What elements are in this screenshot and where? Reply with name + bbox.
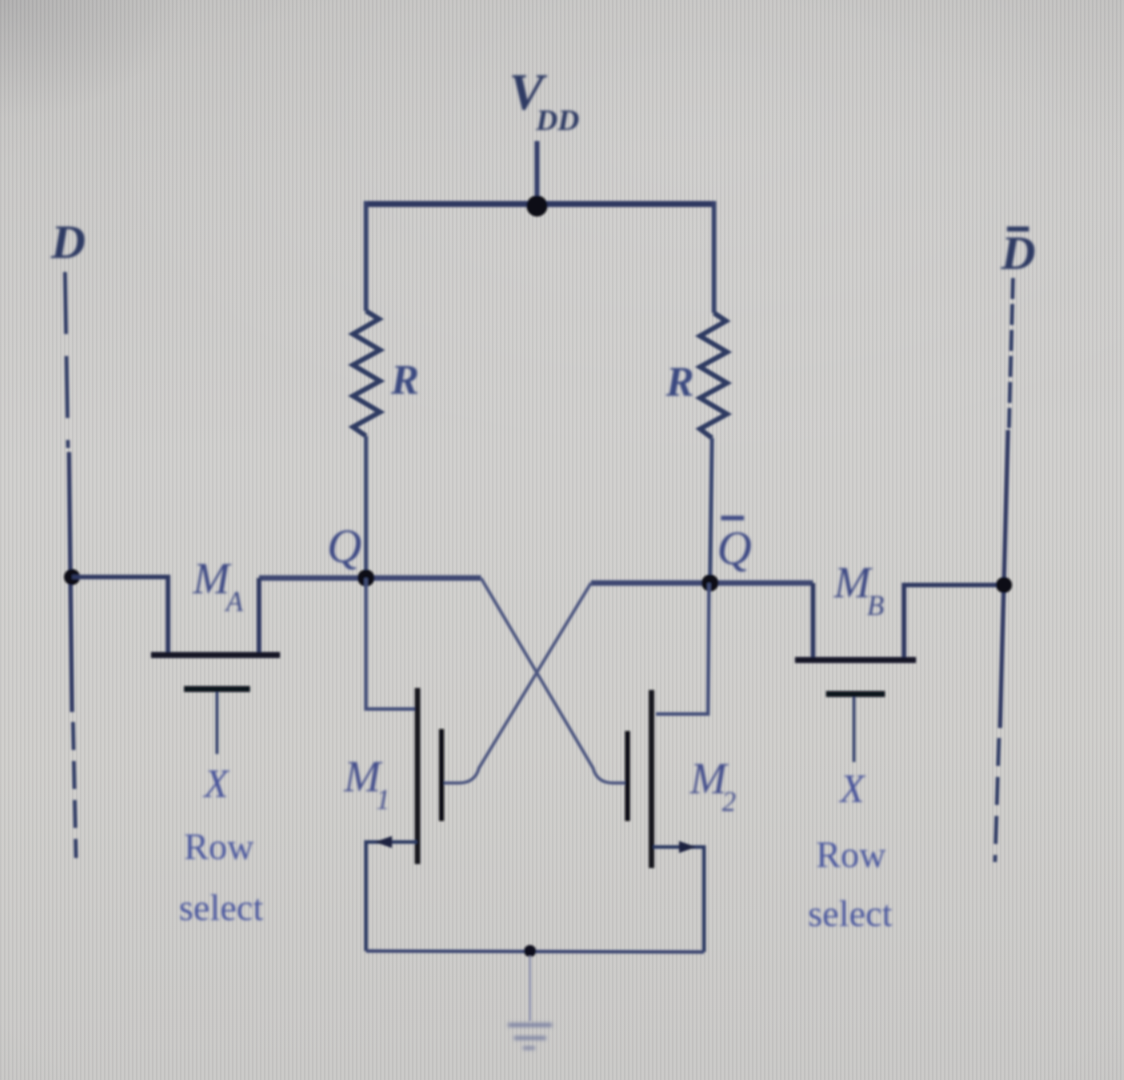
wire: MB source lead to D-bar node bbox=[904, 585, 1004, 657]
wire: right rail corner down to resistor R2 bbox=[712, 201, 717, 313]
node: Qbar junction dot bbox=[702, 575, 719, 592]
transistor M2 gate bar bbox=[625, 731, 630, 821]
svg-text:1: 1 bbox=[376, 785, 390, 816]
wire: R2 bottom lead to node Qbar bbox=[710, 438, 712, 583]
svg-text:Row: Row bbox=[184, 827, 254, 868]
wire: MA gate stem bbox=[216, 692, 219, 754]
bitline D-bar: dashed lower segment bbox=[995, 738, 999, 862]
wire: Qbar bus bbox=[591, 580, 813, 586]
node: bottom rail junction dot bbox=[524, 945, 536, 957]
svg-text:DD: DD bbox=[535, 104, 579, 137]
label: transistor MB bbox=[833, 558, 884, 622]
svg-text:A: A bbox=[224, 587, 244, 618]
transistor M1 channel bar bbox=[415, 688, 421, 864]
label: D-bar (right bitline) bbox=[1000, 227, 1036, 280]
svg-text:Q: Q bbox=[717, 522, 752, 575]
transistor MB gate bar bbox=[826, 691, 885, 697]
svg-text:2: 2 bbox=[722, 787, 736, 818]
bitline D-bar: solid segment bbox=[1000, 430, 1008, 728]
wire: MA source lead to node Q bbox=[257, 578, 262, 652]
label: node Qbar bbox=[717, 518, 752, 575]
node: D-bar bitline junction dot bbox=[996, 577, 1012, 593]
wire: Q bus (MA source to cross-couple start) bbox=[259, 575, 481, 581]
node: VDD junction dot bbox=[527, 196, 548, 217]
transistor M1 gate bar bbox=[439, 729, 444, 821]
wire: cross-couple Q to M2 gate bbox=[481, 578, 627, 783]
svg-text:R: R bbox=[665, 360, 694, 406]
resistor R1 (left load) bbox=[353, 311, 380, 436]
arrow: M1 source arrowhead bbox=[375, 836, 392, 848]
label: transistor M1 bbox=[343, 752, 390, 816]
wire: cross-couple Qbar to M1 gate bbox=[444, 583, 591, 783]
wire: M2 drain lead from node Qbar bbox=[656, 583, 709, 714]
wire: ground stem bbox=[529, 956, 531, 1021]
wire: VDD stub bbox=[535, 141, 540, 204]
svg-text:B: B bbox=[867, 591, 884, 622]
svg-text:select: select bbox=[808, 894, 893, 935]
svg-text:R: R bbox=[390, 358, 419, 404]
bitline D-bar: dashed upper segment bbox=[1009, 278, 1013, 428]
node: Q junction dot bbox=[358, 570, 375, 587]
ground symbol bbox=[508, 1025, 552, 1048]
wire: top VDD rail bbox=[364, 201, 716, 207]
label: VDD bbox=[509, 64, 579, 137]
svg-text:Row: Row bbox=[816, 835, 886, 876]
transistor MA channel bar bbox=[151, 652, 280, 658]
wire: bottom rail (sources to ground) bbox=[366, 951, 704, 952]
wire: MB drain lead from Qbar bus bbox=[811, 583, 816, 657]
transistor MB channel bar bbox=[795, 657, 916, 663]
svg-text:D: D bbox=[50, 216, 86, 269]
resistor R2 (right load) bbox=[700, 313, 727, 438]
bitline D: solid segment bbox=[69, 452, 72, 712]
bitline D: dashed lower segment bbox=[73, 722, 76, 858]
wire: M1 source lead with arrow bbox=[366, 842, 417, 951]
wire: M2 source lead with arrow bbox=[653, 847, 704, 952]
svg-text:D: D bbox=[1000, 227, 1036, 280]
transistor M2 channel bar bbox=[649, 690, 655, 868]
wire: R1 bottom lead to node Q bbox=[364, 436, 368, 578]
svg-text:Q: Q bbox=[327, 520, 362, 573]
label: transistor MA bbox=[192, 554, 244, 618]
wire: M1 drain lead from node Q bbox=[366, 578, 415, 709]
node: D bitline junction dot bbox=[64, 569, 80, 585]
transistor MA gate bar bbox=[184, 686, 250, 692]
svg-text:X: X bbox=[838, 766, 866, 811]
wire: MA drain lead from D node bbox=[72, 577, 168, 652]
arrow: M2 source arrowhead bbox=[679, 841, 696, 853]
svg-text:select: select bbox=[179, 888, 264, 929]
wire: left rail corner down to resistor R1 bbox=[364, 201, 369, 311]
svg-text:X: X bbox=[202, 761, 230, 806]
wire: MB gate stem bbox=[853, 697, 856, 762]
label: transistor M2 bbox=[689, 754, 736, 818]
bitline D: dashed upper segment bbox=[65, 272, 68, 448]
